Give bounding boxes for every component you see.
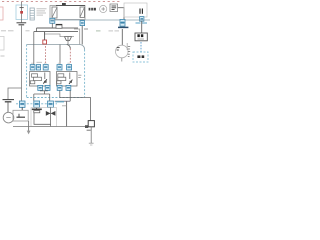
wire C down through S4: [50, 107, 52, 126]
wire to K1 coil: [33, 32, 35, 65]
wire T2 down: [141, 21, 143, 33]
switch S2 glyph: [17, 116, 26, 118]
battery G2 plate long: [3, 99, 15, 101]
connector B row: [34, 101, 40, 107]
M1 inner marks: [117, 47, 120, 49]
tick below connector A: [21, 107, 23, 110]
resistor R1 in U1 left: [52, 7, 57, 18]
wire to F2: [44, 32, 46, 40]
relay K1 top connectors: [30, 65, 35, 70]
relay K3 box: [135, 33, 147, 41]
pin labels above K1/K2 connectors: [31, 62, 34, 64]
wire battery to lower-left branch: [8, 26, 22, 99]
switch box S2: [13, 110, 28, 121]
wire from rail into F1: [21, 2, 23, 23]
wire T3 to wiper motor: [121, 29, 123, 45]
label blue under T2: [136, 22, 141, 24]
wire branch down to connector A: [21, 88, 23, 101]
red dashed wire to K1: [45, 46, 47, 64]
K2 bottom connectors: [57, 85, 62, 90]
terminal strip X2: [30, 8, 34, 20]
K1 contact: [44, 73, 46, 80]
K1 bottom jumper wires: [40, 90, 48, 92]
terminal strip X2 pins: [30, 10, 34, 12]
sensor B1 marks: [101, 8, 105, 10]
wire drop to ground bus: [66, 101, 68, 126]
red dashed wire to K2 with hook: [67, 45, 71, 49]
gray label under C: [62, 105, 67, 107]
bus wire y101: [55, 100, 71, 102]
frame left dashed edge: [26, 45, 28, 98]
faint box left: [0, 36, 4, 50]
inline fuse box S1: [56, 24, 62, 28]
K2 contact: [69, 73, 71, 80]
ground bus bottom: [13, 126, 88, 128]
label KEM bold: [89, 8, 91, 11]
wire stub x36.5: [36, 28, 38, 32]
faint label left: [1, 55, 5, 57]
K2 label right: [78, 74, 81, 76]
net 15 horizontal rail: [50, 19, 150, 21]
relay carrier dashed frame top edge: [27, 45, 85, 50]
control unit U1 box: [50, 6, 85, 20]
K1 label above: [37, 61, 43, 63]
display H1 bars: [112, 5, 117, 7]
label dark under T3: [118, 26, 128, 28]
housing right edge: [74, 29, 80, 45]
connector T3 on rail: [120, 19, 125, 26]
connector C row: [48, 101, 54, 107]
connector T1a under U1: [50, 18, 55, 23]
fuse holder box F1: [16, 5, 28, 20]
generator C1 circle: [3, 112, 14, 123]
M1 bottom tick: [121, 58, 123, 62]
ground tick: [89, 142, 94, 144]
faint vertical label near K3: [126, 43, 128, 50]
wire T4 down: [81, 26, 83, 45]
sensor B1 circle: [100, 5, 107, 12]
connector X1 (left edge, partial): [0, 7, 3, 20]
battery G1 plate long: [17, 22, 27, 24]
display H1 box: [110, 4, 118, 12]
blue label right of C: [56, 101, 65, 103]
frame right dashed edge: [84, 50, 86, 98]
K1 bottom connectors: [38, 85, 43, 90]
dashed terminal row: [16, 103, 57, 105]
label text lines beside X2: [37, 8, 47, 10]
relay K2 body: [57, 72, 78, 87]
fuse F1 element: [20, 11, 23, 14]
wire 30 along U1 top: [56, 5, 85, 7]
enclosure box S3/S4: [31, 108, 57, 127]
battery G1 plate short: [19, 24, 25, 26]
connector T4 on rail x82: [80, 21, 85, 26]
wire T1a down: [51, 23, 53, 28]
dashed wire K3 down: [140, 42, 142, 52]
battery G2 plate short: [5, 101, 12, 103]
faint label row y30: [1, 30, 6, 32]
wire R3 to ground: [90, 127, 92, 143]
switch S3 glyph: [32, 108, 42, 110]
ground arrow W: [28, 121, 30, 131]
K2 coil boxes: [58, 74, 64, 77]
wire S3 down and right: [34, 113, 51, 125]
X9 marks: [137, 55, 140, 58]
wire bus y28: [37, 27, 57, 29]
frame bottom dashed edge: [27, 97, 85, 99]
label under R3: [87, 129, 91, 131]
label 30 bold on wire: [62, 3, 66, 5]
switch S4 bowtie: [46, 111, 51, 116]
bus wire y97.6 to pump resistor: [60, 98, 91, 121]
wire G2 to generator: [7, 102, 9, 112]
net 30 top dashed supply rail: [2, 1, 121, 3]
junction blob: [85, 125, 88, 128]
module A1 glyph: [139, 9, 141, 14]
connector A row: [19, 101, 25, 107]
wire to K2 coil: [59, 45, 61, 65]
tick below connector B: [36, 107, 38, 109]
fuse F1 top bar: [20, 7, 24, 9]
resistor R2 in U1 right: [80, 7, 84, 18]
wire K2 left to bus1: [59, 90, 61, 97]
resistor R3 box bottom: [88, 121, 94, 127]
dashed box X9 bottom right: [133, 52, 148, 62]
connector strip gray stepped line: [44, 34, 74, 37]
fuse F2 red box: [43, 40, 47, 44]
relay K2 top connectors: [57, 65, 62, 70]
relay K1 body: [30, 72, 51, 87]
K1 coil boxes: [32, 74, 38, 77]
wire H1 to rail node: [118, 8, 124, 20]
wire bus y31.6: [34, 31, 78, 33]
module A1 box top right: [124, 3, 147, 17]
wire K2 right down: [69, 90, 71, 101]
relay K3 contacts: [137, 34, 139, 37]
generator C1 mark: [6, 117, 10, 119]
spark plug W1: [65, 37, 72, 41]
connector T2 under A1: [140, 17, 144, 22]
M1 pin labels right: [128, 45, 130, 47]
wiper motor M1 circle: [116, 45, 129, 58]
